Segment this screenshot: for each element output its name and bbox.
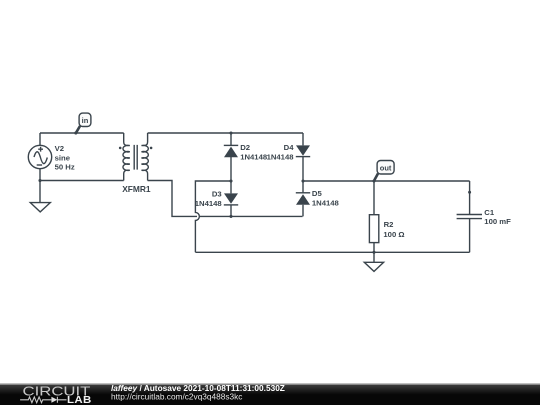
svg-text:LAB: LAB [67, 395, 92, 405]
svg-text:C1: C1 [484, 208, 495, 217]
svg-text:sine: sine [55, 153, 71, 162]
svg-text:in: in [82, 116, 89, 125]
svg-text:D2: D2 [240, 143, 250, 152]
svg-text:XFMR1: XFMR1 [122, 184, 151, 194]
svg-text:D4: D4 [284, 143, 295, 152]
svg-text:50 Hz: 50 Hz [55, 162, 75, 171]
svg-text:1N4148: 1N4148 [267, 152, 295, 161]
svg-text:http://circuitlab.com/c2vq3q48: http://circuitlab.com/c2vq3q488s3kc [111, 392, 242, 402]
svg-text:1N4148: 1N4148 [312, 199, 340, 208]
svg-text:V2: V2 [55, 144, 64, 153]
svg-text:100 Ω: 100 Ω [383, 230, 404, 239]
svg-text:D3: D3 [212, 189, 222, 198]
svg-text:D5: D5 [312, 189, 323, 198]
svg-text:out: out [380, 163, 392, 172]
svg-text:1N4148: 1N4148 [240, 152, 268, 161]
svg-text:1N4148: 1N4148 [195, 199, 223, 208]
svg-text:100 mF: 100 mF [484, 217, 511, 226]
svg-text:R2: R2 [384, 220, 394, 229]
